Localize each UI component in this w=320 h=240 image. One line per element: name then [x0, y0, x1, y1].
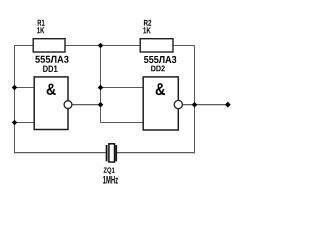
junction DD2 input 1: [98, 85, 104, 91]
DD2 output inversion bubble: [174, 100, 182, 108]
NAND gate DD1 body: [34, 77, 68, 130]
wire DD1 input 2: [15, 122, 36, 124]
value 1MHz: [103, 176, 118, 184]
wire middle rail: [100, 45, 102, 123]
NAND gate DD2 body: [143, 77, 178, 130]
label ZQ1: [104, 167, 115, 174]
junction DD1 input 1: [12, 85, 18, 91]
label DD2: [151, 66, 165, 72]
label DD1: [43, 66, 57, 72]
resistor R2: [140, 39, 173, 52]
output terminal: [225, 102, 231, 108]
label R1: [38, 20, 45, 26]
junction DD1 input 2: [12, 120, 18, 126]
junction DD1 output: [98, 102, 104, 108]
wire left rail: [14, 45, 16, 153]
value 1K (R2): [143, 27, 151, 33]
label R2: [144, 20, 151, 26]
wire DD2 input 2: [101, 122, 144, 124]
wire DD2 input 1: [101, 87, 144, 89]
wire bottom right crystal lead: [117, 152, 195, 154]
value 1K (R1): [37, 27, 44, 33]
wire right rail: [194, 45, 196, 153]
resistor R1: [33, 39, 65, 52]
DD2 ampersand: [156, 83, 165, 95]
label 555LA3 (DD2): [144, 56, 176, 63]
DD1 ampersand: [47, 84, 56, 95]
junction top middle: [98, 43, 104, 49]
crystal ZQ1 right plate: [115, 145, 117, 161]
wire DD1 output: [68, 104, 101, 106]
label 555LA3 (DD1): [35, 56, 68, 63]
crystal ZQ1 body: [109, 144, 115, 162]
wire DD2 output: [178, 104, 227, 106]
wire bottom left crystal lead: [14, 152, 106, 154]
junction DD2 output: [192, 102, 198, 108]
wire DD1 input 1: [15, 87, 36, 89]
DD1 output inversion bubble: [64, 101, 72, 109]
wire top bus: [14, 45, 195, 47]
crystal ZQ1 left plate: [106, 145, 108, 161]
